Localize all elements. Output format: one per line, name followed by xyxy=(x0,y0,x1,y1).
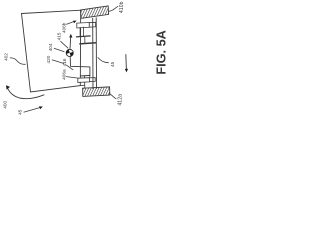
rail 410a (left line) xyxy=(92,18,94,89)
svg-text:FIG. 5A: FIG. 5A xyxy=(154,30,168,74)
svg-text:415: 415 xyxy=(56,32,61,40)
crossbar plate lower (thick) xyxy=(79,43,96,44)
panel 402 (large quad) xyxy=(22,10,81,92)
svg-text:412a: 412a xyxy=(117,94,123,106)
svg-text:406b: 406b xyxy=(62,22,67,33)
svg-text:406a: 406a xyxy=(62,69,67,80)
link below pivot to panel edge xyxy=(70,56,90,75)
svg-text:400: 400 xyxy=(3,101,8,109)
up arrow on pivot link xyxy=(69,34,72,49)
svg-text:404: 404 xyxy=(48,43,53,51)
leader from 415 label xyxy=(60,41,68,48)
crossbar plate upper xyxy=(76,36,91,37)
squiggle leader from 402 xyxy=(10,58,26,64)
leader from 416 label xyxy=(66,65,73,70)
swoosh arrow 400 xyxy=(6,85,44,99)
long link vertical xyxy=(84,37,86,44)
svg-text:420: 420 xyxy=(46,55,51,63)
rail mount bar 412a (bottom hatched bar) xyxy=(83,87,110,97)
arrow 45 (downward motion arrow at right) xyxy=(125,54,128,72)
carriage bracket 406b (upper, below top bar) xyxy=(77,23,90,29)
svg-text:45: 45 xyxy=(18,109,23,115)
svg-text:410b: 410b xyxy=(119,1,125,13)
svg-text:402: 402 xyxy=(4,53,9,61)
wire bottom edge extension to lower bar xyxy=(80,84,85,86)
carriage side plate right vertical xyxy=(83,27,85,36)
rail mount bar 410b (top hatched bar) xyxy=(81,6,109,18)
short vertical into lower bracket right xyxy=(89,76,91,78)
short vertical into lower bracket left xyxy=(84,76,86,78)
leader to 412a xyxy=(109,93,117,99)
carriage bracket 406a (lower, above bottom bar) xyxy=(78,78,90,83)
svg-text:416: 416 xyxy=(62,58,67,66)
leader from 420 label xyxy=(52,60,64,64)
pivot symbol 404 (quartered circle) xyxy=(65,48,74,57)
svg-text:45: 45 xyxy=(110,61,115,67)
crossbar above lower bracket xyxy=(80,74,90,77)
carriage side plate left vertical xyxy=(79,27,81,36)
leader to 45 (mid) xyxy=(98,57,109,62)
leader to 410b xyxy=(109,6,118,11)
rail 410a (right line) xyxy=(95,17,97,88)
arrow 45 (lower-left axis arrow) xyxy=(24,106,43,112)
leader from 406a label xyxy=(66,77,77,78)
stem below lower bracket xyxy=(84,82,86,88)
leader from 404 label xyxy=(54,48,65,51)
leader from 406b label xyxy=(66,21,76,25)
